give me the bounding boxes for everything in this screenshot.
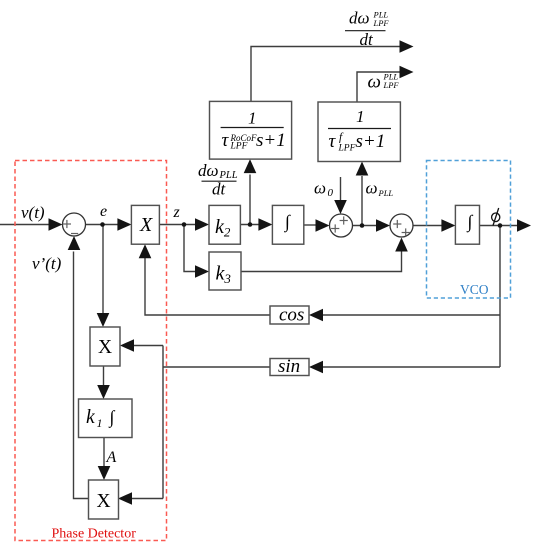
arrowhead output phi [517, 219, 531, 232]
svg-text:LPF: LPF [383, 80, 400, 90]
svg-text:LPF: LPF [338, 144, 356, 154]
wire z down to k3 [184, 225, 196, 272]
wire X2 to k1-integrator [103, 366, 105, 386]
arrowhead left into X2 right [120, 339, 134, 352]
svg-text:k: k [86, 407, 95, 428]
fraction bar LPF1 [221, 127, 284, 129]
arrowhead up into sum1 bottom (minus input) [68, 236, 81, 250]
svg-text:v’(t): v’(t) [32, 254, 62, 273]
arrowhead into k3 [195, 265, 209, 278]
wire integrator2 to output [480, 225, 519, 227]
block X2 [90, 327, 120, 366]
block integrator2 VCO [455, 205, 479, 244]
wire X1 to k2 [159, 224, 196, 226]
svg-text:X: X [98, 337, 112, 358]
svg-text:dω: dω [349, 9, 370, 28]
arrowhead left into sin [309, 361, 323, 374]
svg-text:X: X [139, 214, 153, 236]
svg-text:A: A [106, 449, 117, 466]
arrowhead into sum3 [316, 219, 330, 232]
wire cos line right segment [322, 314, 500, 316]
block k1-integrator [79, 399, 133, 438]
block LPF1 RoCoF filter [210, 101, 292, 159]
arrowhead omega0 down into sum3 [334, 200, 347, 214]
arrowhead down into X2 top [97, 313, 110, 327]
node phi [498, 223, 503, 228]
wire trunk to X2 [133, 345, 163, 347]
svg-text:sin: sin [278, 356, 300, 377]
svg-text:VCO: VCO [460, 282, 489, 297]
wire sum1 to X1 [86, 224, 120, 226]
arrowhead down into X3 top [98, 466, 111, 480]
svg-text:cos: cos [279, 305, 304, 326]
wire sin output trunk [163, 366, 270, 368]
svg-text:τ: τ [329, 131, 337, 152]
summing junction sum4 [390, 214, 413, 237]
arrowhead omega_LPF output [400, 66, 414, 79]
wire k2 to integrator1 [240, 224, 259, 226]
svg-text:ω: ω [314, 179, 326, 198]
wire input v(t) [0, 224, 49, 226]
arrowhead into sum1 [49, 218, 63, 231]
phase detector dashed box [15, 161, 167, 541]
wire k3 to sum4 bottom [241, 251, 402, 272]
wire sum3 to sum4 [353, 225, 378, 227]
arrowhead into k2 [195, 218, 209, 231]
arrowhead up into LPF2 [356, 162, 369, 176]
arrowhead into sum4 [376, 219, 390, 232]
svg-text:z: z [173, 204, 181, 221]
node sum3 output [360, 223, 365, 228]
svg-text:1: 1 [97, 416, 103, 430]
wire sum4 to integrator2 [413, 225, 442, 227]
arrowhead left into cos [309, 309, 323, 322]
node e [100, 222, 105, 227]
svg-text:dω: dω [198, 161, 219, 180]
sum1 plus sign [63, 223, 71, 225]
summing junction sum1 [63, 213, 86, 236]
sum3 plus sign lower [331, 228, 339, 230]
block X3 [89, 480, 119, 519]
sum1 minus sign [71, 233, 78, 235]
block cos [270, 306, 309, 324]
arrowhead up into LPF1 [244, 159, 257, 173]
svg-text:ω: ω [368, 72, 381, 93]
arrowhead down into k1-integrator [97, 385, 110, 399]
svg-text:X: X [97, 491, 111, 512]
wire LPF2 top output [357, 72, 401, 102]
block integrator1 [272, 205, 303, 244]
wire vertical trunk x163 [162, 346, 164, 499]
label phi (drawn) [492, 208, 500, 226]
svg-text:dt: dt [360, 30, 375, 49]
block sin [270, 359, 309, 376]
wire omega0 input [340, 177, 342, 201]
svg-text:0: 0 [328, 187, 334, 199]
svg-text:ω: ω [366, 179, 378, 198]
VCO dashed box [427, 161, 511, 299]
node k2 output [248, 222, 253, 227]
wire trunk to X3 [132, 498, 164, 500]
svg-text:1: 1 [356, 107, 365, 126]
arrowhead into X1 [117, 218, 131, 231]
sum4 plus sign lower [402, 232, 410, 234]
svg-text:v(t): v(t) [21, 203, 45, 222]
wire sin line right segment [322, 366, 500, 368]
wire e node down to X2 [102, 225, 104, 315]
arrowhead up into X1 bottom [139, 244, 152, 258]
svg-text:τ: τ [222, 130, 230, 151]
wire phi node down [499, 226, 501, 368]
svg-text:1: 1 [248, 109, 257, 128]
block k3 [209, 252, 241, 290]
sum4 plus sign upper [393, 223, 401, 225]
wire cos to X1 bottom [145, 258, 270, 316]
summing junction sum3 [330, 214, 353, 237]
svg-text:s+1: s+1 [356, 131, 386, 152]
wire integrator1 to sum3 [304, 224, 317, 226]
sum3 plus sign upper [340, 220, 348, 222]
wire node to LPF2 (omega_PLL) [361, 176, 363, 226]
svg-text:LPF: LPF [230, 142, 248, 152]
block LPF2 frequency filter [318, 102, 400, 162]
wire X3 output feedback to sum1 [74, 252, 89, 499]
arrowhead up into sum4 bottom [395, 238, 408, 252]
svg-text:s+1: s+1 [256, 130, 286, 151]
arrowhead left into X3 right [118, 492, 132, 505]
block X1 [131, 205, 159, 244]
wire LPF1 top output [251, 47, 401, 102]
wire node to LPF1 (domega/dt) [249, 175, 251, 225]
node z [182, 222, 187, 227]
svg-text:PLL: PLL [378, 188, 394, 198]
svg-text:LPF: LPF [373, 18, 390, 28]
wire k1-integrator to X3 [103, 438, 105, 468]
arrowhead top-right domega output [400, 40, 414, 53]
svg-text:Phase Detector: Phase Detector [52, 527, 137, 542]
svg-text:e: e [100, 203, 107, 220]
arrowhead into integrator2 [441, 219, 455, 232]
block k2 [209, 205, 240, 244]
svg-text:dt: dt [212, 180, 227, 199]
fraction bar LPF2 [328, 128, 391, 130]
arrowhead into integrator1 [258, 218, 272, 231]
